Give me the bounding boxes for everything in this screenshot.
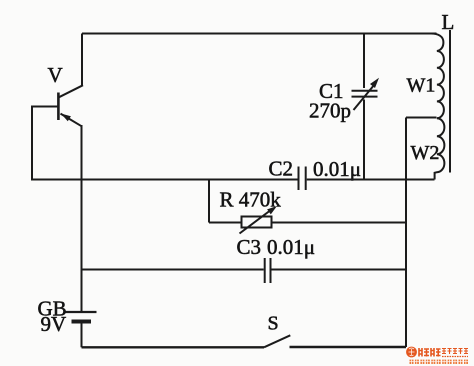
wire: C2 row left segment: [31, 179, 298, 181]
capacitor C2: [299, 167, 306, 191]
svg-text:W1: W1: [407, 75, 436, 97]
wire: right vertical (coil tap to bottom rail): [405, 118, 407, 348]
wire: C1 riser top: [363, 34, 365, 89]
resistor R 470k (variable): [240, 206, 278, 234]
wire: C1 riser bottom: [363, 100, 365, 180]
capacitor C1 (variable): [352, 78, 380, 110]
wire: base lead: [32, 106, 58, 108]
wire: emitter riser: [81, 126, 83, 312]
wire: left vertical from base to C2 row: [31, 106, 33, 180]
wire: battery negative lead: [81, 324, 83, 348]
inductor L winding W2: [435, 118, 445, 179]
svg-text:W2: W2: [411, 142, 440, 164]
wire: R row right segment: [272, 222, 407, 224]
svg-text:C2: C2: [269, 157, 294, 181]
svg-text:0.01μ: 0.01μ: [313, 157, 361, 181]
battery GB: [65, 312, 97, 322]
svg-text:V: V: [48, 63, 63, 87]
wire: top rail: [82, 33, 437, 35]
svg-text:C3: C3: [237, 235, 262, 259]
wire: C3 row right segment: [272, 269, 407, 271]
wire: bottom rail left: [82, 346, 265, 348]
svg-text:R 470k: R 470k: [220, 188, 282, 212]
watermark logo (dzsc): [406, 347, 468, 364]
svg-text:L: L: [442, 10, 455, 34]
svg-text:270p: 270p: [309, 99, 351, 123]
svg-text:0.01μ: 0.01μ: [267, 235, 315, 259]
wire: bottom rail right: [290, 346, 407, 348]
inductor L core line: [449, 30, 451, 173]
capacitor C3: [265, 258, 271, 283]
wire: R row riser: [208, 180, 210, 223]
wire: C2 row right segment: [307, 179, 435, 181]
svg-text:9V: 9V: [41, 312, 67, 336]
transistor V: [58, 85, 83, 131]
svg-text:S: S: [268, 313, 279, 335]
wire: R row left segment: [209, 222, 242, 224]
wire: C3 row left segment: [82, 269, 264, 271]
wire: coil tap lead: [406, 117, 437, 119]
switch S: [264, 335, 290, 347]
inductor L winding W1: [431, 34, 444, 119]
wire: collector riser: [81, 34, 83, 86]
